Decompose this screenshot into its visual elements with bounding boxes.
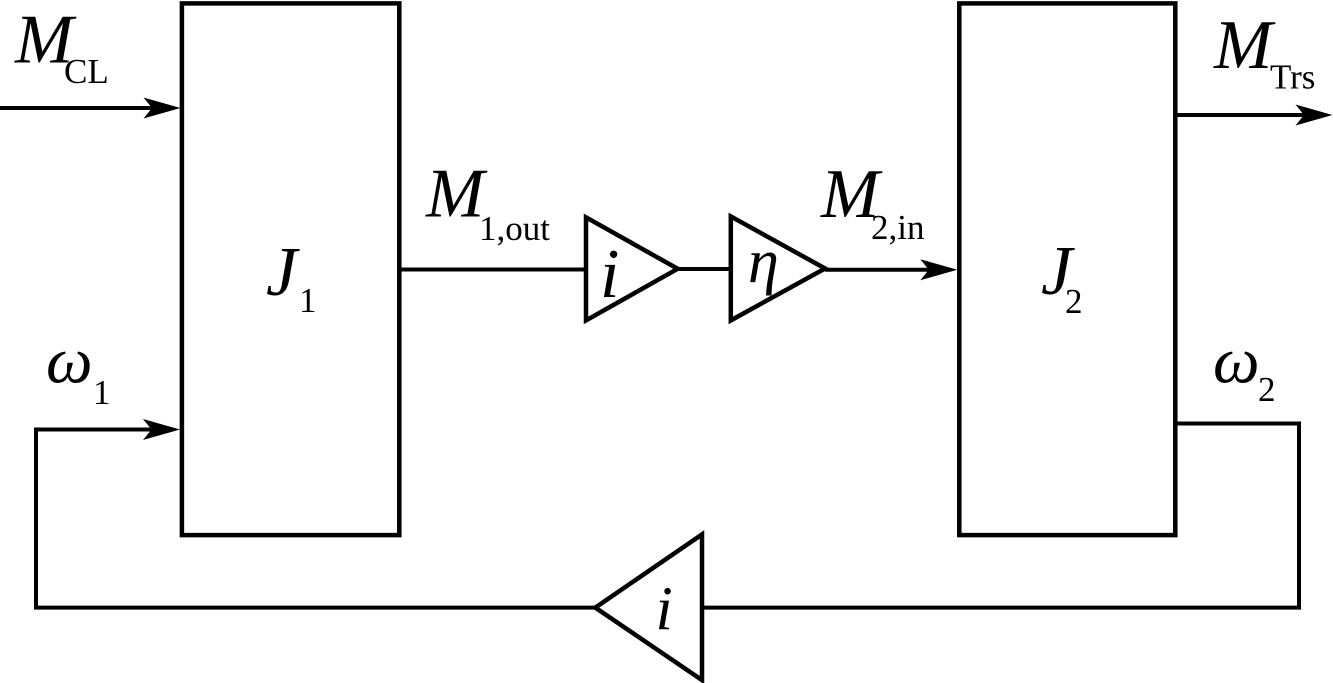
wire omega2 from J2 down <box>702 424 1299 608</box>
svg-text:J: J <box>266 234 300 311</box>
wire M_Trs output arrow <box>1175 113 1305 117</box>
svg-text:1: 1 <box>299 281 317 320</box>
svg-text:i: i <box>600 236 619 313</box>
block J1 box <box>182 3 399 535</box>
svg-text:Trs: Trs <box>1270 58 1315 97</box>
svg-text:1,out: 1,out <box>479 209 550 248</box>
block J2 box <box>959 3 1175 535</box>
svg-text:ω: ω <box>46 325 93 398</box>
svg-text:2: 2 <box>1258 370 1276 409</box>
gain i feedback triangle (points left) <box>595 534 702 680</box>
svg-text:CL: CL <box>64 52 109 91</box>
gain eta (efficiency) triangle <box>731 216 825 320</box>
wire eta to J2 arrow <box>825 268 930 272</box>
svg-text:M: M <box>1213 7 1276 84</box>
wire J1 to gear i <box>399 268 586 272</box>
gain i (gear ratio) triangle <box>586 217 678 320</box>
svg-text:2,in: 2,in <box>871 208 924 247</box>
svg-text:2: 2 <box>1065 282 1083 321</box>
wire M_CL input arrow <box>0 106 153 110</box>
wire i to eta <box>678 267 731 271</box>
svg-text:1: 1 <box>93 373 111 412</box>
svg-text:ω: ω <box>1213 325 1260 398</box>
wire feedback bottom to J1 with arrow <box>36 430 595 608</box>
svg-text:i: i <box>656 576 673 644</box>
svg-text:η: η <box>748 228 779 296</box>
